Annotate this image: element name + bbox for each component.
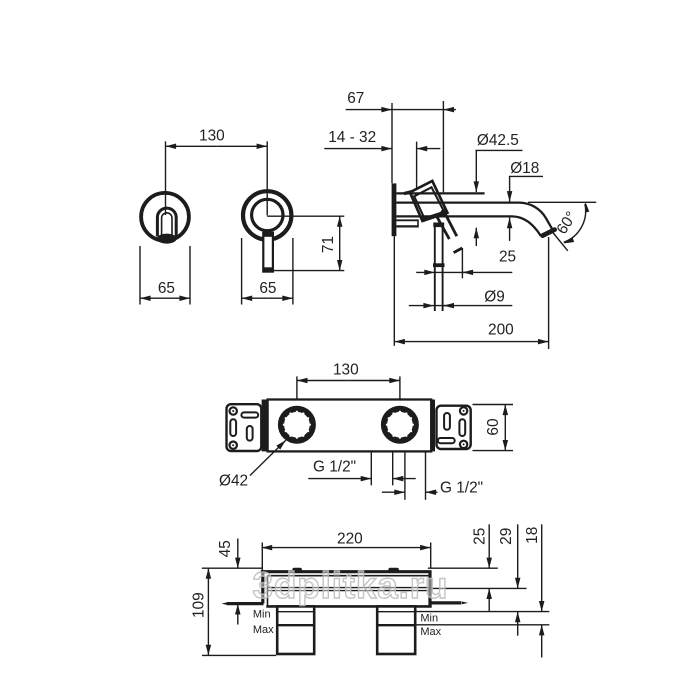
left end band [262,400,268,452]
right flange slots [444,413,450,430]
control rod [434,223,436,312]
dimension 67: dim line [346,109,392,111]
right knurled circle [384,409,416,441]
dimension 130 middle: dim line [297,380,349,382]
svg-text:Min: Min [253,609,271,621]
dimension 130 top: extension lines [165,141,167,215]
spout outlet dark ellipse [157,234,177,244]
dimension 14-32: extension line [416,142,418,190]
svg-text:130: 130 [333,362,359,379]
G1/2 right dim line [382,491,405,493]
dimension 220: dim line [262,547,347,549]
pipe 2 [377,606,415,654]
handle knob outer [410,181,448,221]
right end vertical [428,570,431,606]
pipe 1 max line [277,624,314,626]
svg-text:3dplitka.ru: 3dplitka.ru [253,565,448,606]
left knurled circle [281,409,313,441]
dimension 71: dim line [339,216,341,243]
svg-text:Ø42.5: Ø42.5 [477,132,519,149]
step vertical [261,570,264,603]
svg-text:67: 67 [347,90,364,107]
dimension 18: dim lines [541,524,543,611]
spout bottom edge [396,216,541,236]
body top line [396,192,484,194]
spout front slot outer [157,208,176,236]
dimension 65 right: extension lines [241,238,243,305]
dimension 65 left: extension lines [139,246,141,305]
dimension 220: extension lines [261,543,263,571]
right end band [431,400,435,452]
body double lines [268,587,429,589]
dimension 200: extension lines [393,236,395,346]
right flange [437,406,471,449]
dimension 130 middle: extension lines [296,376,298,399]
dimension 65 left: dim line [140,297,165,299]
pipe 1 min line [277,611,314,613]
svg-text:14 - 32: 14 - 32 [328,129,376,146]
svg-text:29: 29 [498,528,515,545]
handle knob inner [414,187,444,218]
handle escutcheon outer ring [243,191,291,239]
spout front slot inner [162,213,172,236]
H2 extension right [432,587,527,589]
svg-text:65: 65 [158,280,175,297]
wall escutcheon plate [392,183,397,236]
dimension 25: extension tick [454,248,463,253]
60 deg tangent line [552,232,568,251]
svg-text:25: 25 [499,249,516,266]
rod top cap [433,223,444,228]
60 deg reference line [528,201,596,203]
dimension 71: extension lines [267,215,344,217]
right tab [430,601,461,604]
min max lines right [417,611,550,613]
pipe 2 min line [377,611,415,613]
svg-text:200: 200 [488,322,514,339]
G1/2 left dim line [308,478,371,480]
svg-text:220: 220 [337,530,363,547]
left tab [227,602,264,605]
right flange screw holes [460,407,467,414]
dimension 109: bottom extension [202,654,276,656]
svg-text:Ø9: Ø9 [484,289,505,306]
60 deg arc arrows [585,202,589,213]
spout end cap [543,230,555,236]
screw bumps [292,568,302,572]
body front box [268,575,429,577]
wall surface line left [202,567,263,569]
dimension 200: dim line [394,341,471,343]
left flange [227,404,262,451]
rod middle cap [433,263,445,267]
svg-text:25: 25 [471,528,488,545]
body lower lines [396,219,418,221]
dimension 130 top: dim line with arrows [166,145,217,147]
dimension O42.5: leader [475,149,522,151]
dimension 60: dim line [504,405,506,428]
left flange screw holes [230,407,237,414]
dimension O9: dim line [409,305,434,307]
svg-text:Ø18: Ø18 [510,160,539,177]
svg-text:G 1/2": G 1/2" [313,458,356,475]
G1/2 left verticals [370,452,372,486]
dimension 109: dim line [207,568,209,612]
G1/2 right verticals [404,452,406,500]
svg-text:45: 45 [217,540,234,557]
svg-text:60: 60 [485,418,502,435]
spout escutcheon circle [141,193,189,241]
dimension 45: dim lines [237,539,239,569]
dimension 14-32: dim line [324,148,392,150]
dimension 25 bottom: dim lines [488,524,490,568]
dimension 67: extension lines [391,103,393,183]
dimension O18: leader [509,175,543,177]
pipe 1 [277,606,314,654]
svg-text:G 1/2": G 1/2" [440,479,483,496]
svg-text:Max: Max [420,626,441,638]
pipe 2 max line [377,624,415,626]
svg-text:65: 65 [259,280,276,297]
lever bottom cap [262,267,273,272]
svg-text:71: 71 [320,236,337,253]
svg-text:130: 130 [199,128,225,145]
spout top edge [396,203,553,231]
svg-text:109: 109 [190,592,207,618]
dimension 65 right: dim line [242,297,268,299]
lever top cap [262,232,273,237]
svg-text:Ø42: Ø42 [219,473,248,490]
wall surface line right [428,567,498,569]
60 deg arc [564,204,586,242]
O42 leader [250,440,286,475]
bracket body [268,400,432,452]
dimension 60: extension lines [473,404,514,406]
dimension 29: dim lines [517,524,519,588]
handle lever sticks [444,212,457,237]
svg-text:Min: Min [420,612,438,624]
svg-text:18: 18 [524,527,541,544]
lever handle body [263,233,273,272]
dimension 25: dim line [416,271,435,273]
bracket top thick [261,570,431,573]
handle escutcheon inner ring [252,199,283,230]
svg-text:Max: Max [253,624,274,636]
left flange slots [241,412,258,417]
